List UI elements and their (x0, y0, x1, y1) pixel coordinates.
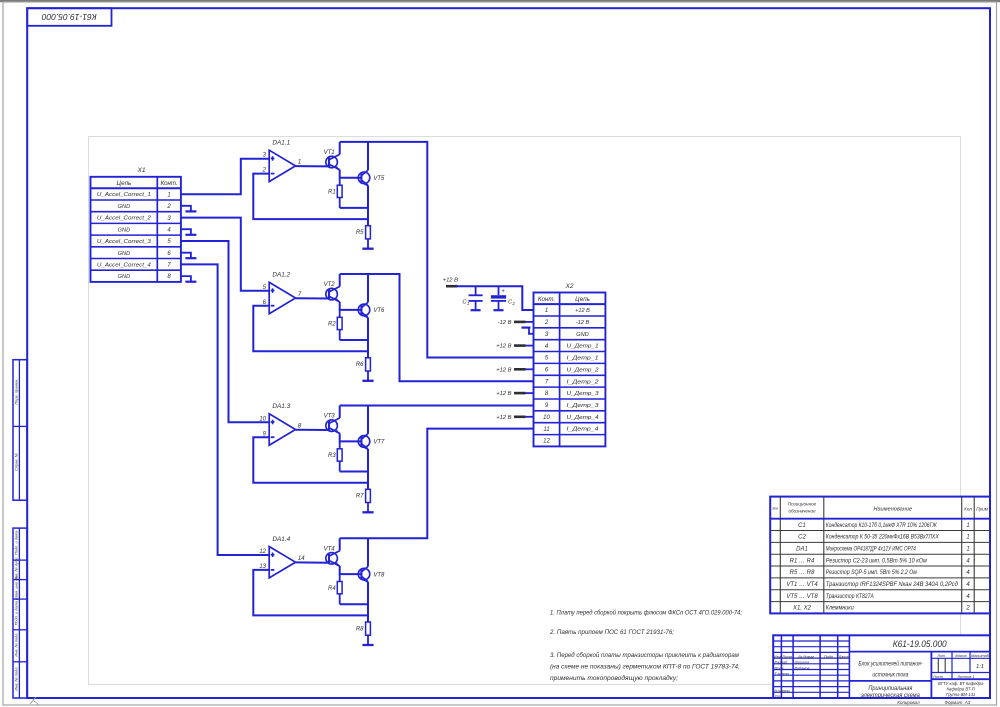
svg-text:U_Accel_Correct_3: U_Accel_Correct_3 (97, 239, 152, 245)
svg-text:Подп. и дата: Подп. и дата (14, 600, 19, 625)
wire (to X2 pin 8) (524, 392, 534, 394)
wire (VT4 collector to rail) (339, 538, 341, 551)
svg-text:2: 2 (544, 320, 549, 326)
svg-text:C1: C1 (798, 523, 806, 529)
svg-text:1:1: 1:1 (976, 664, 984, 670)
svg-text:Лист: Лист (781, 655, 792, 659)
svg-text:GND: GND (118, 251, 130, 257)
svg-text:Зон: Зон (772, 507, 778, 511)
pin 3 (DA1.1 non-inverting input) (263, 153, 267, 159)
pin 10 (DA1.3 non-inverting input) (259, 416, 266, 422)
pin 14 (DA1.4 output) (298, 556, 305, 562)
svg-text:VT3: VT3 (324, 414, 336, 420)
resistor R6 (356, 358, 371, 381)
op-amp DA1.4 (269, 536, 295, 578)
resistor R1 (328, 178, 342, 208)
capacitor C1 (462, 286, 482, 310)
svg-text:Т.контр.: Т.контр. (775, 672, 790, 676)
svg-text:Пров.: Пров. (775, 666, 785, 670)
svg-text:R5: R5 (356, 230, 364, 236)
wire (stage 4 collector rail to X2) (340, 429, 534, 539)
resistor R3 (328, 441, 342, 471)
wire (VT4 emitter to VT8 base / R4) (340, 566, 362, 574)
svg-text:Масса: Масса (955, 654, 966, 658)
ground (R5) (362, 248, 373, 250)
svg-text:ВГТУ каф. ВТ Кафедра: ВГТУ каф. ВТ Кафедра (938, 681, 984, 686)
svg-text:А3: А3 (964, 700, 971, 705)
transistor VT5 (358, 170, 385, 186)
transistor VT6 (358, 302, 385, 318)
svg-text:Резистор SQP-5 имп. 5Вт 5% 2,: Резистор SQP-5 имп. 5Вт 5% 2,2 Ом (826, 570, 917, 576)
wire (R4 bottom to VT8 emitter node) (340, 603, 368, 605)
transistor VT4 (324, 546, 340, 567)
connector X1 (91, 167, 181, 282)
svg-text:Конт.: Конт. (160, 180, 177, 187)
svg-text:Позиционное: Позиционное (788, 502, 817, 507)
svg-text:X1, X2: X1, X2 (792, 606, 812, 612)
svg-text:I_Детр_1: I_Детр_1 (567, 356, 599, 362)
svg-text:+12 В: +12 В (496, 344, 511, 350)
svg-text:Наименование: Наименование (873, 506, 912, 512)
svg-text:Инв. № подл.: Инв. № подл. (14, 632, 19, 656)
svg-text:DA1.4: DA1.4 (272, 536, 290, 543)
svg-text:источник тока: источник тока (872, 672, 909, 678)
svg-text:VT4: VT4 (324, 546, 336, 552)
svg-text:GND: GND (118, 227, 130, 233)
wire (X1 pin 5 to DA1.3 input 10) (181, 241, 269, 422)
svg-text:Подп. и дата: Подп. и дата (14, 530, 19, 555)
svg-text:R1 … R4: R1 … R4 (790, 558, 815, 564)
ground (C1) (471, 309, 481, 311)
power terminal -12 В (X2 pin 2) (498, 320, 526, 326)
svg-text:Резистор С2-23 имп. 0,5Вт 5%: Резистор С2-23 имп. 0,5Вт 5% 10 кОм (826, 558, 927, 564)
pin 6 (DA1.2 inverting input) (263, 300, 267, 306)
wire (VT8 emitter down to R8) (367, 582, 369, 622)
wire (stage 3 collector rail to X2) (340, 405, 534, 407)
transistor VT3 (324, 414, 340, 435)
wire (X1 pin 7 to DA1.4 input 12) (181, 264, 269, 555)
svg-text:VT6: VT6 (373, 308, 385, 314)
svg-text:DA1.1: DA1.1 (272, 140, 290, 147)
svg-text:VT5: VT5 (373, 176, 385, 182)
svg-text:VT1 … VT4: VT1 … VT4 (786, 582, 818, 588)
wire (VT6 emitter down to R6) (367, 318, 369, 358)
svg-text:R2: R2 (328, 322, 336, 328)
svg-text:1: 1 (966, 547, 969, 553)
wire (R2 bottom to VT6 emitter node) (340, 339, 368, 341)
svg-text:Взам. инв. №: Взам. инв. № (14, 575, 19, 600)
wire (VT2 collector to rail) (339, 274, 341, 287)
svg-text:U_Детр_3: U_Детр_3 (567, 391, 600, 397)
svg-text:10: 10 (543, 415, 550, 421)
ground (X1 pin 6 GND stub) (181, 253, 197, 259)
wire (VT1 collector to rail) (339, 142, 341, 155)
svg-text:R4: R4 (328, 586, 336, 592)
power terminal +12 В (X2 pin 4) (496, 344, 525, 350)
wire (DA1.2 output to VT2 base) (296, 297, 330, 299)
wire (VT7 emitter down to R7) (367, 449, 369, 489)
svg-text:(на схеме не показаны) гермети: (на схеме не показаны) герметиком КПТ-8 … (550, 663, 740, 670)
svg-text:DA1.2: DA1.2 (272, 272, 290, 279)
wire (stage 1 collector rail to X2) (340, 142, 534, 358)
svg-text:VT1: VT1 (324, 150, 335, 156)
svg-text:R8: R8 (356, 626, 364, 632)
svg-text:Транзистор КТ827А: Транзистор КТ827А (826, 594, 874, 600)
svg-text:1: 1 (545, 308, 548, 314)
svg-text:14: 14 (298, 556, 305, 562)
wire (DA1.3 output to VT3 base) (296, 429, 330, 431)
svg-text:1: 1 (966, 535, 969, 541)
ground (X1 pin 8 GND stub) (181, 276, 197, 282)
wire (VT5 emitter down to R5) (367, 185, 369, 225)
svg-text:1. Плату перед сборкой покрыть: 1. Плату перед сборкой покрыть флюсом ФК… (550, 610, 742, 617)
ground (C2) (494, 309, 504, 311)
svg-text:DA1.3: DA1.3 (272, 403, 290, 410)
svg-text:GND: GND (576, 332, 588, 338)
svg-text:Утв.: Утв. (775, 694, 784, 698)
svg-text:1: 1 (298, 160, 301, 166)
svg-text:U_Accel_Correct_4: U_Accel_Correct_4 (97, 263, 151, 269)
wire (VT2 emitter to VT6 base / R2) (340, 302, 362, 310)
svg-text:12: 12 (543, 439, 550, 445)
svg-text:U_Accel_Correct_2: U_Accel_Correct_2 (97, 216, 152, 222)
svg-text:U_Accel_Correct_1: U_Accel_Correct_1 (97, 192, 151, 198)
op-amp DA1.2 (269, 272, 295, 314)
svg-text:применить токопроводящую прокл: применить токопроводящую прокладку; (550, 675, 678, 682)
svg-text:I_Детр_3: I_Детр_3 (567, 403, 600, 409)
wire (VT7 collector to rail) (367, 406, 369, 434)
svg-text:К61-19.05.000: К61-19.05.000 (893, 639, 947, 649)
svg-text:Транзистор IRF1324SPBF Nкан 2: Транзистор IRF1324SPBF Nкан 24В 340А 0,2… (826, 582, 959, 588)
wire (VT6 collector to rail) (367, 274, 369, 302)
wire (DA1.4 output to VT4 base) (296, 561, 330, 563)
wire (VT1 emitter to VT5 base / R1) (340, 170, 362, 178)
svg-text:+: + (502, 288, 505, 294)
svg-text:№ докум.: № докум. (798, 655, 815, 659)
wire (feedback node to DA1.2 pin 6) (253, 306, 368, 352)
svg-text:R7: R7 (356, 494, 364, 500)
svg-text:Шишков: Шишков (795, 661, 810, 665)
resistor R5 (356, 226, 371, 249)
svg-text:DA1: DA1 (796, 547, 808, 553)
svg-text:2. Паять припоем ПОС 61 ГОСТ 2: 2. Паять припоем ПОС 61 ГОСТ 21931-76; (549, 629, 674, 636)
svg-text:Кафедра ВТ-П: Кафедра ВТ-П (947, 687, 976, 692)
wire (to X2 pin 6) (524, 368, 534, 370)
svg-text:-12 В: -12 В (498, 320, 512, 326)
wire (VT3 emitter to VT7 base / R3) (340, 433, 362, 441)
svg-text:U_Детр_1: U_Детр_1 (567, 344, 599, 350)
ground (R6) (362, 380, 373, 382)
ground (X1 pin 4 GND stub) (181, 229, 197, 235)
ground (R8) (362, 644, 373, 646)
svg-text:VT2: VT2 (324, 282, 336, 288)
svg-text:Рубанов: Рубанов (795, 666, 810, 670)
svg-text:I_Детр_4: I_Детр_4 (567, 427, 599, 433)
svg-text:Конт.: Конт. (538, 296, 555, 303)
svg-text:+12 В: +12 В (496, 415, 511, 421)
power terminal +12 В (X2 pin 10) (496, 415, 525, 421)
wire (feedback node to DA1.3 pin 9) (253, 437, 368, 483)
svg-text:Цепь: Цепь (575, 296, 590, 303)
svg-text:VT7: VT7 (373, 440, 385, 446)
wire (VT8 collector to rail) (367, 538, 369, 566)
svg-text:1: 1 (167, 192, 170, 198)
svg-text:R3: R3 (328, 453, 336, 459)
svg-text:3. Перед сборкой платы транзис: 3. Перед сборкой платы транзисторы прикл… (550, 652, 740, 659)
ground (R7) (362, 511, 373, 513)
transistor VT7 (358, 434, 385, 450)
svg-text:Изм: Изм (774, 655, 781, 659)
svg-text:Прим: Прим (976, 506, 988, 511)
svg-text:VT5 … VT8: VT5 … VT8 (786, 594, 818, 600)
wire (X1 pin 3 to DA1.2 input 5) (181, 218, 269, 291)
svg-text:Разраб.: Разраб. (775, 661, 789, 665)
svg-text:Цепь: Цепь (117, 180, 132, 187)
wire (to X2 pin 2) (524, 321, 534, 323)
pin 5 (DA1.2 non-inverting input) (263, 285, 267, 291)
svg-text:VT8: VT8 (373, 572, 385, 578)
svg-text:-12 В: -12 В (576, 320, 590, 326)
svg-text:+12 В: +12 В (496, 367, 511, 373)
svg-text:R6: R6 (356, 362, 364, 368)
svg-text:электрическая схема: электрическая схема (861, 693, 921, 699)
wire (X1 pin 1 to DA1.1 input 3) (181, 159, 269, 195)
transistor VT1 (324, 150, 340, 171)
svg-text:Формат: Формат (945, 700, 963, 705)
svg-text:Конденсатор К 50-35 220мкФх16В: Конденсатор К 50-35 220мкФх16В В53Вх7ЛХХ (826, 535, 940, 541)
wire (stage 2 collector rail to X2) (340, 274, 534, 381)
svg-text:12: 12 (259, 549, 266, 555)
transistor VT8 (358, 567, 385, 583)
svg-text:обозначение: обозначение (788, 509, 816, 514)
svg-text:Х2: Х2 (564, 283, 573, 290)
resistor R7 (356, 489, 371, 512)
pin 7 (DA1.2 output) (298, 292, 302, 298)
power terminal +12 В (X2 pin 8) (496, 391, 525, 397)
svg-text:Масштаб: Масштаб (971, 654, 990, 658)
connector X2 (534, 283, 606, 447)
wire (DA1.1 output to VT1 base) (296, 165, 330, 167)
wire (VT5 collector to rail) (367, 142, 369, 170)
wire (feedback node to DA1.1 pin 2) (253, 174, 368, 220)
transistor VT2 (324, 282, 340, 303)
op-amp DA1.3 (269, 403, 295, 445)
svg-text:Блок усилителей питания-: Блок усилителей питания- (858, 660, 922, 667)
svg-text:Справ. №: Справ. № (14, 452, 19, 470)
svg-text:Конденсатор К10-17б 0,1мкФ Х7R: Конденсатор К10-17б 0,1мкФ Х7R 10% 1206Г… (826, 523, 937, 529)
svg-text:U_Детр_2: U_Детр_2 (567, 367, 600, 373)
svg-text:10: 10 (259, 416, 266, 422)
pin 9 (DA1.3 inverting input) (263, 431, 267, 437)
svg-text:Н.контр.: Н.контр. (775, 689, 791, 693)
wire (R1 bottom to VT5 emitter node) (340, 207, 368, 209)
svg-text:C2: C2 (798, 535, 806, 541)
ground (X1 pin 2 GND stub) (181, 206, 197, 212)
svg-text:2: 2 (166, 204, 171, 210)
wire (feedback node to DA1.4 pin 13) (253, 570, 368, 616)
capacitor C2 (polarized) (491, 286, 516, 310)
svg-text:I_Детр_2: I_Детр_2 (567, 379, 600, 385)
svg-text:Принципиальная: Принципиальная (868, 686, 913, 692)
svg-text:+12 В: +12 В (575, 308, 590, 314)
svg-text:Лит.: Лит. (936, 654, 946, 658)
svg-text:11: 11 (543, 427, 549, 433)
svg-text:Кол: Кол (964, 506, 972, 511)
pin 8 (DA1.3 output) (298, 423, 302, 429)
svg-text:1: 1 (966, 523, 969, 529)
svg-text:+12 В: +12 В (496, 391, 511, 397)
svg-text:R5 … R8: R5 … R8 (790, 570, 815, 576)
svg-text:+12 В: +12 В (443, 277, 458, 283)
svg-text:Дата: Дата (837, 655, 848, 659)
wire (VT3 collector to rail) (339, 406, 341, 419)
resistor R2 (328, 310, 342, 340)
svg-text:Группа ВМ-131: Группа ВМ-131 (946, 692, 975, 697)
resistor R8 (356, 622, 371, 645)
pin 12 (DA1.4 non-inverting input) (259, 549, 266, 555)
power terminal +12 В (main rail) (443, 277, 458, 286)
pin 2 (DA1.1 inverting input) (262, 168, 267, 174)
svg-text:Подп.: Подп. (824, 655, 834, 659)
svg-text:Клеммники: Клеммники (826, 606, 855, 612)
svg-text:R1: R1 (328, 190, 336, 196)
pin 13 (DA1.4 inverting input) (259, 564, 266, 570)
power terminal +12 В (X2 pin 6) (496, 367, 525, 373)
svg-text:Лист: Лист (932, 675, 943, 679)
wire (+12V rail to X2 pin 1) (456, 286, 534, 310)
svg-text:GND: GND (118, 274, 130, 280)
svg-text:Х1: Х1 (136, 167, 145, 174)
pin 1 (DA1.1 output) (298, 160, 301, 166)
svg-text:Листов 1: Листов 1 (957, 675, 975, 679)
wire (to X2 pin 4) (524, 345, 534, 347)
svg-text:U_Детр_4: U_Детр_4 (567, 415, 599, 421)
svg-text:1: 1 (467, 301, 469, 306)
resistor R4 (328, 574, 342, 604)
op-amp DA1.1 (269, 140, 295, 182)
svg-text:Инв. № подл.: Инв. № подл. (14, 667, 19, 691)
svg-text:К61-19.05.000: К61-19.05.000 (41, 12, 96, 21)
svg-text:2: 2 (965, 606, 970, 612)
ground (X2 pin 3 GND stub) (522, 328, 534, 334)
svg-text:Перв. примен.: Перв. примен. (14, 379, 19, 405)
svg-text:Копировал: Копировал (897, 700, 920, 705)
wire (R3 bottom to VT7 emitter node) (340, 471, 368, 473)
svg-text:GND: GND (118, 204, 130, 210)
svg-text:Микросхема ОР4187ДР 4х12У ИМС: Микросхема ОР4187ДР 4х12У ИМС ОР74 (826, 547, 917, 553)
wire (to X2 pin 10) (524, 416, 534, 418)
